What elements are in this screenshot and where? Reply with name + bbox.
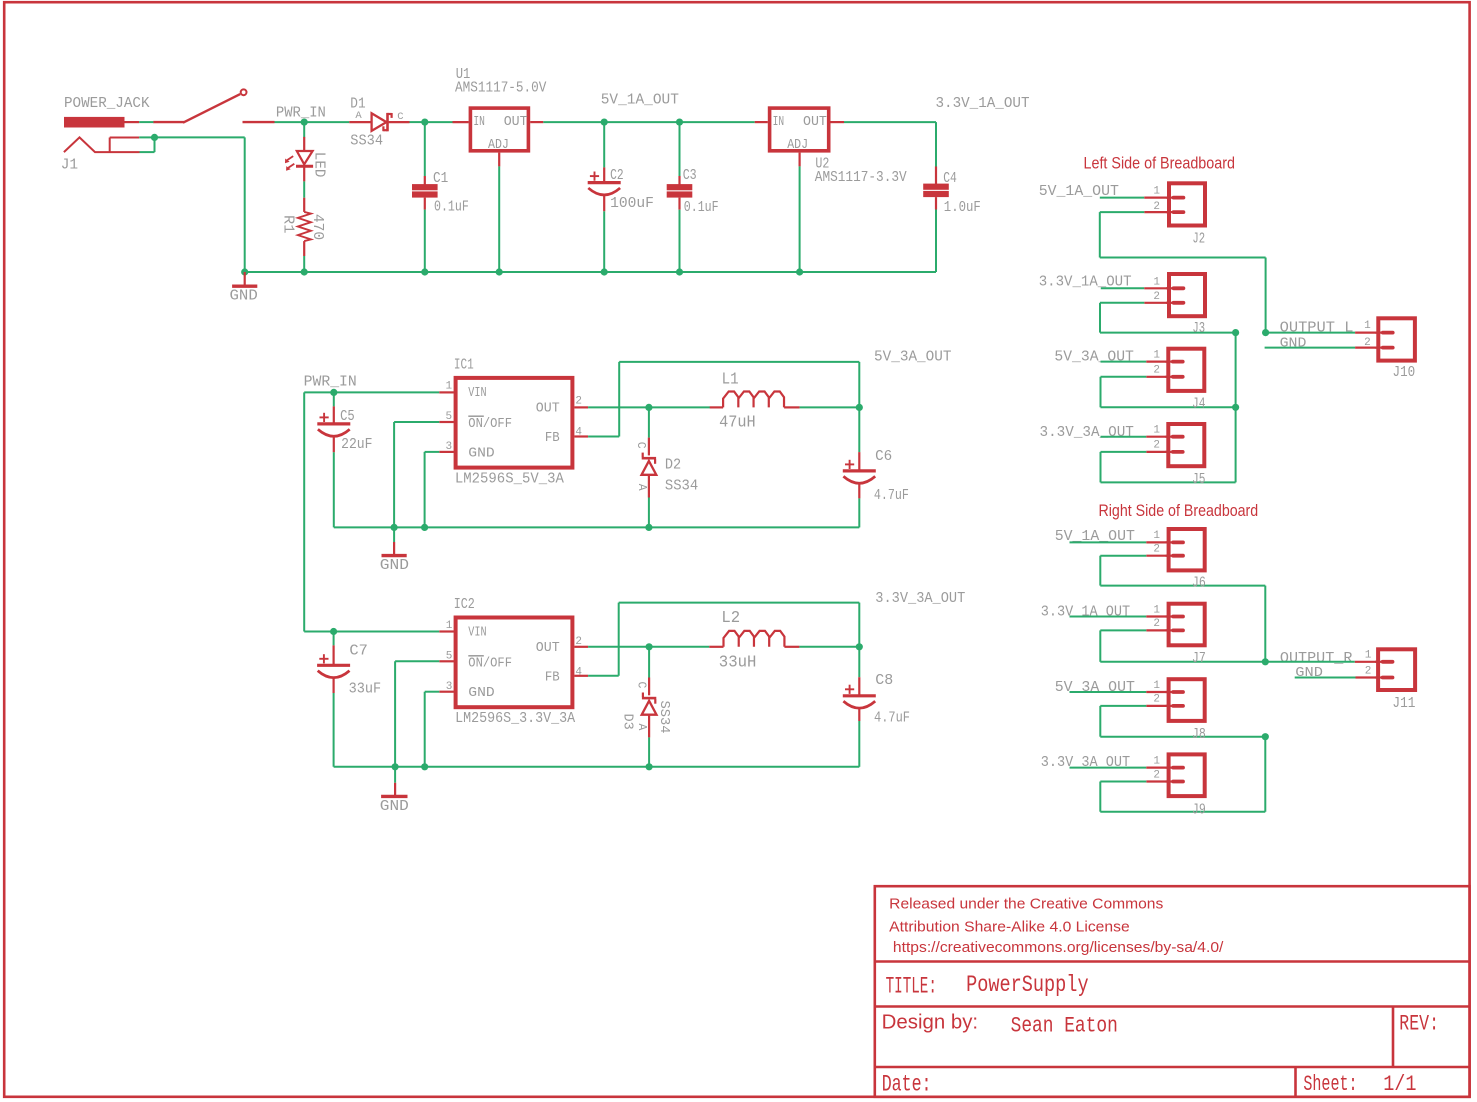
- wire C2 to GND rail: [603, 211, 605, 272]
- pin number 2 of J6: [1153, 544, 1160, 556]
- svg-text:Right Side of Breadboard: Right Side of Breadboard: [1099, 502, 1259, 520]
- svg-text:2: 2: [1153, 769, 1160, 781]
- pin label IN of U2: [773, 114, 785, 130]
- svg-text:Design by:: Design by:: [882, 1011, 978, 1033]
- wire U1 OUT to C2: [543, 121, 604, 123]
- pin number 2 of J7: [1153, 618, 1160, 630]
- wire D1 cathode to node: [410, 121, 425, 123]
- junction OUTPUT_L node: [1262, 329, 1269, 336]
- svg-text:J3: J3: [1192, 320, 1205, 337]
- pin label FB of IC2: [545, 670, 560, 686]
- junction D3 cathode node: [646, 643, 653, 650]
- capacitor C2 100uF polarized: [588, 167, 621, 211]
- wire GND rail top circuit: [245, 271, 936, 273]
- svg-text:2: 2: [1153, 440, 1160, 452]
- wire GND to J11 pin 2: [1295, 677, 1380, 679]
- svg-text:LM2596S_3.3V_3A: LM2596S_3.3V_3A: [455, 710, 575, 727]
- junction OUTPUT_R node: [1262, 658, 1269, 665]
- label J6: [1192, 575, 1206, 592]
- svg-text:1: 1: [1153, 680, 1160, 692]
- wire node to C2: [603, 122, 605, 167]
- svg-text:A: A: [355, 110, 362, 122]
- ground symbol GND middle: [380, 527, 409, 574]
- net label OUTPUT_R: [1280, 650, 1353, 667]
- wire C7 to bottom GND rail: [333, 693, 335, 767]
- wire C4 down to GND rail: [935, 210, 937, 273]
- svg-text:2: 2: [1153, 291, 1160, 303]
- pin label A of D1: [355, 110, 362, 122]
- svg-text:470: 470: [309, 214, 326, 240]
- svg-text:D2: D2: [665, 456, 681, 473]
- svg-text:4: 4: [575, 427, 582, 439]
- label POWER_JACK: [64, 95, 150, 112]
- junction OUTPUT_L at J3 bus: [1232, 329, 1239, 336]
- svg-text:Left Side of Breadboard: Left Side of Breadboard: [1084, 155, 1236, 173]
- svg-text:OUT: OUT: [536, 640, 560, 656]
- svg-text:IN: IN: [773, 114, 785, 130]
- pin number 1 of J8: [1153, 680, 1160, 692]
- svg-text:5V_3A_OUT: 5V_3A_OUT: [1054, 348, 1134, 365]
- sheet number 1/1: [1383, 1072, 1416, 1097]
- wire IC2 GND pin to rail: [425, 692, 440, 767]
- wire J5 pin 2 to OUTPUT_L bus: [1101, 407, 1236, 482]
- pin label ADJ of U1: [488, 137, 509, 153]
- svg-text:5V_1A_OUT: 5V_1A_OUT: [601, 92, 679, 109]
- wire node to D2 cathode: [648, 407, 650, 437]
- label J8: [1192, 726, 1206, 743]
- junction C1 top: [421, 119, 428, 126]
- svg-text:1: 1: [1153, 425, 1160, 437]
- value 100uF of C2: [610, 195, 654, 212]
- pin label OUT of U2: [803, 114, 827, 130]
- junction C3 top: [676, 119, 683, 126]
- svg-text:ON/OFF: ON/OFF: [468, 416, 512, 432]
- junction OUTPUT_L at J4 bus: [1232, 404, 1239, 411]
- wire node to C1: [424, 122, 426, 176]
- connector J4: [1165, 349, 1204, 391]
- title block frame: [874, 886, 1470, 1097]
- value 4.7uF of C6: [874, 487, 909, 504]
- svg-text:J8: J8: [1192, 726, 1206, 743]
- pin number 1 of IC1: [446, 380, 453, 392]
- svg-text:1.0uF: 1.0uF: [944, 199, 981, 216]
- net label 3.3V_3A_OUT: [875, 590, 965, 607]
- label U2: [815, 155, 829, 172]
- wire PWR_IN down to LED: [303, 122, 305, 137]
- svg-text:3.3V_1A_OUT: 3.3V_1A_OUT: [936, 95, 1030, 112]
- svg-text:A: A: [635, 484, 648, 491]
- svg-text:C: C: [397, 111, 403, 123]
- license line 1: [889, 895, 1163, 912]
- svg-text:Sheet:: Sheet:: [1303, 1072, 1357, 1097]
- wire 3.3V_1A_OUT to J7 pin 1: [1070, 616, 1171, 618]
- svg-text:VIN: VIN: [468, 385, 486, 401]
- svg-text:GND: GND: [468, 446, 494, 462]
- wire PWR_IN to IC1 VIN: [304, 391, 439, 393]
- label J3: [1192, 320, 1205, 337]
- svg-text:1: 1: [1365, 650, 1372, 662]
- svg-text:4.7uF: 4.7uF: [874, 710, 910, 727]
- svg-text:SS34: SS34: [350, 132, 383, 149]
- svg-text:J11: J11: [1392, 695, 1415, 712]
- pin number 4 of IC1: [575, 427, 582, 439]
- value LM2596S_3.3V_3A: [455, 710, 575, 727]
- svg-text:3.3V_1A_OUT: 3.3V_1A_OUT: [1041, 604, 1130, 621]
- heading Right Side of Breadboard: [1099, 502, 1259, 520]
- svg-text:IC2: IC2: [454, 596, 475, 613]
- pin number 2 of J9: [1153, 769, 1160, 781]
- designer Sean Eaton: [1011, 1014, 1118, 1039]
- junction L1 output node: [856, 404, 863, 411]
- svg-text:J10: J10: [1393, 364, 1416, 381]
- wire OUTPUT_L bus vertical: [1235, 333, 1237, 408]
- junction U1 ADJ on rail: [496, 268, 503, 275]
- capacitor C8 4.7uF polarized: [843, 677, 876, 721]
- pin label GND of IC1: [468, 446, 494, 462]
- wire 5V_1A_OUT to J6 pin 1: [1070, 541, 1171, 543]
- label LED: [310, 152, 327, 178]
- pin label A of D2: [635, 484, 648, 491]
- label D1: [350, 96, 365, 113]
- svg-text:47uH: 47uH: [719, 412, 756, 431]
- pin number 2 of J11: [1365, 665, 1372, 677]
- svg-text:OUT: OUT: [504, 114, 528, 130]
- svg-text:C6: C6: [875, 448, 892, 465]
- junction C1 bottom: [421, 268, 428, 275]
- label R1: [280, 215, 297, 233]
- wire U2 ADJ to GND rail: [799, 166, 801, 272]
- svg-text:1: 1: [446, 380, 453, 392]
- wire C1 to GND rail: [424, 210, 426, 272]
- ground symbol GND bottom: [380, 767, 409, 815]
- pin label VIN of IC2: [468, 625, 486, 641]
- svg-text:J2: J2: [1192, 230, 1205, 247]
- label J5: [1192, 471, 1205, 488]
- net label 5V_3A_OUT at J4: [1054, 348, 1134, 365]
- wire 3.3V_3A_OUT to J5 pin 1: [1101, 436, 1171, 438]
- junction R1 bottom: [301, 268, 308, 275]
- svg-text:C2: C2: [610, 167, 624, 184]
- wire J3 pin 2 to OUTPUT_L bus: [1100, 303, 1236, 333]
- svg-text:C7: C7: [349, 642, 368, 659]
- pin label ADJ of U2: [787, 137, 808, 153]
- wire J2 pin 2 to OUTPUT_L bus: [1100, 212, 1266, 333]
- pin number 1 of J11: [1365, 650, 1372, 662]
- svg-text:0.1uF: 0.1uF: [434, 199, 469, 216]
- label J10: [1393, 364, 1416, 381]
- svg-text:2: 2: [1153, 201, 1160, 213]
- wire IC2 OUT to D3: [588, 646, 649, 648]
- wire jack pin to switch: [139, 121, 153, 123]
- svg-text:PowerSupply: PowerSupply: [966, 972, 1089, 999]
- diode D2 SS34 schottky: [642, 438, 657, 498]
- svg-text:SS34: SS34: [665, 477, 698, 494]
- junction C2 top: [601, 119, 608, 126]
- connector J5: [1165, 424, 1204, 466]
- net label 5V_3A_OUT at J8: [1055, 679, 1135, 696]
- net label 3.3V_1A_OUT at J3: [1039, 274, 1132, 291]
- label D3: [620, 714, 635, 730]
- pin number 2 of IC1: [575, 396, 582, 408]
- wire D2 anode to GND rail: [648, 498, 650, 528]
- pin label GND of IC2: [468, 685, 494, 701]
- capacitor C1 0.1uF: [412, 176, 438, 210]
- svg-text:VIN: VIN: [468, 625, 486, 641]
- net label GND at J11: [1295, 665, 1323, 681]
- switch lever of J1: [153, 89, 274, 122]
- svg-text:OUT: OUT: [536, 400, 560, 416]
- value 1.0uF of C4: [944, 199, 981, 216]
- svg-text:AMS1117-5.0V: AMS1117-5.0V: [455, 80, 546, 97]
- pin label ON/OFF of IC2 with overline: [468, 656, 512, 672]
- net label PWR_IN middle: [304, 373, 357, 390]
- regulator U2 AMS1117-3.3V: [755, 108, 844, 166]
- svg-text:L2: L2: [721, 608, 740, 627]
- svg-text:1: 1: [1153, 604, 1160, 616]
- svg-text:3: 3: [446, 441, 453, 453]
- svg-text:1: 1: [1153, 277, 1160, 289]
- net label 5V_1A_OUT: [601, 92, 679, 109]
- net label 5V_3A_OUT: [874, 349, 952, 366]
- value 470 of R1: [309, 214, 326, 240]
- pin number 2 of J3: [1153, 291, 1160, 303]
- svg-text:ON/OFF: ON/OFF: [468, 656, 512, 672]
- pin number 2 of J2: [1153, 201, 1160, 213]
- label J4: [1192, 396, 1205, 413]
- title block TITLE:: [886, 974, 937, 1001]
- wire node to C7: [333, 632, 335, 646]
- svg-text:C1: C1: [433, 170, 448, 187]
- wire IC1 ON/OFF to GND rail: [394, 422, 439, 527]
- svg-text:1: 1: [1153, 185, 1160, 197]
- value SS34 of D2: [665, 477, 698, 494]
- connector J8: [1166, 679, 1205, 721]
- svg-text:GND: GND: [380, 557, 409, 574]
- junction IC1 GND on rail: [421, 524, 428, 531]
- svg-text:Sean Eaton: Sean Eaton: [1011, 1014, 1118, 1039]
- label J9: [1192, 801, 1206, 818]
- svg-text:J1: J1: [61, 157, 78, 174]
- svg-text:1: 1: [1153, 530, 1160, 542]
- wire 5V_1A_OUT to J2 pin 1: [1100, 197, 1170, 199]
- wire OUTPUT_R to J11 pin 1: [1265, 661, 1379, 663]
- junction D3 on rail: [646, 763, 653, 770]
- svg-text:ADJ: ADJ: [787, 137, 808, 153]
- pin number 5 of IC2: [446, 651, 453, 663]
- connector J3: [1166, 274, 1205, 316]
- wire jack sleeve to GND branch: [139, 137, 245, 272]
- label C2: [610, 167, 624, 184]
- pin number 2 of J4: [1153, 365, 1160, 377]
- pin number 1 of J10: [1364, 320, 1371, 332]
- svg-text:2: 2: [1153, 694, 1160, 706]
- wire J7 pin 2 to OUTPUT_R bus: [1100, 630, 1265, 661]
- pin label OUT of U1: [504, 114, 528, 130]
- junction C3 bottom: [676, 268, 683, 275]
- label IC1: [454, 357, 474, 374]
- capacitor C6 4.7uF polarized: [843, 452, 876, 498]
- capacitor C5 22uF polarized: [317, 406, 350, 452]
- wire J6 pin 2 to OUTPUT_R bus: [1100, 556, 1265, 662]
- svg-text:AMS1117-3.3V: AMS1117-3.3V: [815, 169, 907, 186]
- wire IC1 OUT to D2: [588, 406, 649, 408]
- pin number 3 of IC1: [446, 441, 453, 453]
- pin number 5 of IC1: [446, 411, 453, 423]
- value 0.1uF of C3: [684, 199, 719, 216]
- net label 3.3V_3A_OUT at J5: [1040, 424, 1134, 441]
- pin label OUT of IC1: [536, 400, 560, 416]
- wire C8 to GND rail: [858, 721, 860, 767]
- value 22uF of C5: [341, 436, 372, 453]
- inductor L2 33uH: [709, 631, 799, 647]
- pin label C of D3: [634, 682, 647, 689]
- svg-text:3.3V_3A_OUT: 3.3V_3A_OUT: [875, 590, 965, 607]
- wire D3 node to L2: [649, 646, 709, 648]
- wire U1 ADJ to GND rail: [498, 166, 500, 272]
- wire L1 to C6 node: [800, 406, 860, 408]
- license line 2: [889, 919, 1129, 936]
- diode D1 SS34 schottky: [349, 113, 409, 131]
- wire IC2 ON/OFF to GND rail: [395, 661, 439, 767]
- svg-text:5V_3A_OUT: 5V_3A_OUT: [1055, 679, 1135, 696]
- wire GND rail middle circuit: [334, 526, 860, 528]
- svg-text:1: 1: [1153, 755, 1160, 767]
- connector J11: [1375, 649, 1415, 690]
- title block Sheet:: [1303, 1072, 1357, 1097]
- pin number 1 of J5: [1153, 425, 1160, 437]
- svg-text:LM2596S_5V_3A: LM2596S_5V_3A: [455, 470, 564, 487]
- svg-text:2: 2: [1365, 665, 1372, 677]
- capacitor C7 33uF polarized: [317, 645, 350, 693]
- svg-text:33uH: 33uH: [719, 653, 757, 672]
- net label 3.3V_3A_OUT at J9: [1041, 754, 1130, 771]
- connector J6: [1166, 529, 1205, 570]
- diode D3 SS34 schottky: [642, 678, 657, 738]
- pin label C of D1: [397, 111, 403, 123]
- net label 3.3V_1A_OUT: [936, 95, 1030, 112]
- pin number 1 of J4: [1153, 349, 1160, 361]
- value 33uH of L2: [719, 653, 757, 672]
- svg-text:J5: J5: [1192, 471, 1205, 488]
- license line 3: [893, 939, 1224, 956]
- svg-text:L1: L1: [722, 369, 739, 388]
- connector J7: [1166, 604, 1205, 646]
- pin number 2 of J5: [1153, 440, 1160, 452]
- title block Design by:: [882, 1011, 978, 1033]
- label C4: [943, 170, 957, 187]
- wire GND rail bottom circuit: [334, 766, 860, 768]
- svg-text:A: A: [635, 724, 648, 731]
- net label OUTPUT_L: [1280, 320, 1354, 337]
- wire LED to R1: [303, 181, 305, 197]
- label J7: [1192, 650, 1206, 667]
- svg-text:IN: IN: [473, 114, 485, 130]
- wire GND to J10 pin 2: [1265, 347, 1380, 349]
- wire IC1 GND pin to rail: [425, 452, 440, 528]
- svg-text:GND: GND: [380, 798, 409, 815]
- svg-text:REV:: REV:: [1399, 1012, 1439, 1037]
- junction D2 cathode node: [645, 404, 652, 411]
- junction at jack sleeve: [151, 134, 158, 141]
- inductor L1 47uH: [710, 392, 800, 408]
- node PWR_IN: [276, 104, 326, 125]
- wire C5 to mid GND rail: [333, 452, 335, 527]
- IC IC2 LM2596S_3.3V_3A buck converter: [439, 618, 588, 708]
- junction C2 bottom: [601, 268, 608, 275]
- svg-text:ADJ: ADJ: [488, 137, 509, 153]
- value LM2596S_5V_3A: [455, 470, 564, 487]
- svg-text:D3: D3: [620, 714, 635, 730]
- svg-text:2: 2: [1153, 544, 1160, 556]
- wire L2 to C8 node: [799, 646, 859, 648]
- wire OUTPUT_L to J10 pin 1: [1266, 332, 1380, 334]
- junction L2 output node: [856, 643, 863, 650]
- svg-text:2: 2: [575, 636, 582, 648]
- svg-text:GND: GND: [230, 287, 258, 304]
- pin number 1 of J6: [1153, 530, 1160, 542]
- label U1: [456, 66, 471, 83]
- svg-text:LED: LED: [310, 152, 327, 178]
- label C1: [433, 170, 448, 187]
- wire PWR_IN to D1 anode: [304, 121, 349, 123]
- wire C3 to GND rail: [679, 210, 681, 272]
- label J2: [1192, 230, 1205, 247]
- pin label OUT of IC2: [536, 640, 560, 656]
- junction U2 ADJ on rail: [796, 268, 803, 275]
- svg-text:22uF: 22uF: [341, 436, 372, 453]
- svg-text:5: 5: [446, 651, 453, 663]
- svg-text:C: C: [634, 682, 647, 689]
- net label 5V_1A_OUT at J2: [1039, 183, 1119, 200]
- svg-text:5: 5: [446, 411, 453, 423]
- junction D2 on rail: [645, 524, 652, 531]
- svg-text:2: 2: [575, 396, 582, 408]
- heading Left Side of Breadboard: [1084, 155, 1236, 173]
- svg-text:POWER_JACK: POWER_JACK: [64, 95, 150, 112]
- IC IC1 LM2596S_5V_3A buck converter: [439, 378, 588, 468]
- wire J4 pin 2 to OUTPUT_L bus: [1101, 377, 1236, 408]
- title block Date:: [882, 1072, 932, 1099]
- svg-text:3: 3: [446, 681, 453, 693]
- pin number 3 of IC2: [446, 681, 453, 693]
- svg-text:0.1uF: 0.1uF: [684, 199, 719, 216]
- pin label FB of IC1: [545, 430, 560, 446]
- wire C2 to C3: [604, 121, 679, 123]
- wire node to C6: [858, 407, 860, 452]
- title PowerSupply: [966, 972, 1089, 999]
- pin number 1 of J3: [1153, 277, 1160, 289]
- net label 3.3V_1A_OUT at J7: [1041, 604, 1130, 621]
- junction IC2 GND on rail: [421, 763, 428, 770]
- svg-text:33uF: 33uF: [349, 681, 382, 698]
- svg-text:J4: J4: [1192, 396, 1205, 413]
- label C7: [349, 642, 368, 659]
- pin label VIN of IC1: [468, 385, 486, 401]
- wire C6 to GND rail: [858, 498, 860, 527]
- svg-text:J7: J7: [1192, 650, 1206, 667]
- wire node to C8: [858, 647, 860, 677]
- svg-text:3.3V_3A_OUT: 3.3V_3A_OUT: [1040, 424, 1134, 441]
- label L2: [721, 608, 740, 627]
- wire IC2 FB to output node: [588, 603, 859, 676]
- svg-text:PWR_IN: PWR_IN: [276, 104, 326, 121]
- svg-text:1: 1: [1364, 320, 1371, 332]
- value SS34 of D1: [350, 132, 383, 149]
- junction GND stem: [241, 268, 248, 275]
- wire node to C3: [679, 122, 681, 176]
- pin number 1 of J7: [1153, 604, 1160, 616]
- capacitor C4 1.0uF: [923, 167, 949, 210]
